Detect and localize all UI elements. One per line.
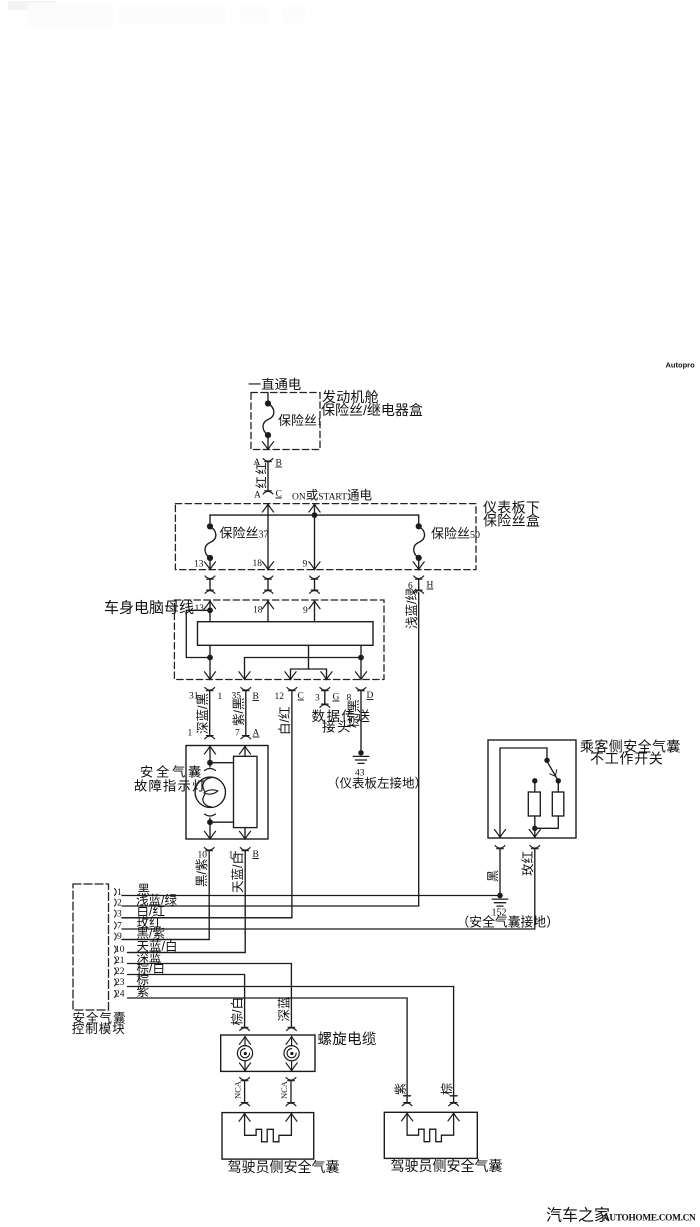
fuse F1 保险丝1	[263, 400, 274, 438]
wire fuse1 feed stub	[267, 393, 269, 404]
svg-text:保险丝50: 保险丝50	[431, 526, 480, 541]
arrow into airbag left pin2	[286, 1113, 297, 1121]
switch contact dot left	[532, 778, 537, 783]
arrow into lamp box pin7	[239, 746, 250, 754]
svg-text:保险丝1: 保险丝1	[278, 413, 322, 428]
svg-text:22: 22	[115, 967, 125, 977]
junction dot lamp top	[207, 760, 213, 766]
svg-text:深蓝/黑: 深蓝/黑	[196, 693, 210, 734]
pin 1 mark	[115, 889, 117, 896]
branch wire to 35	[245, 658, 362, 679]
arrow out at 18	[262, 562, 273, 570]
connector top half pin 31	[205, 688, 215, 691]
wire row10 天蓝/白 to lamp pin11	[128, 952, 246, 954]
svg-text:B: B	[253, 692, 259, 702]
wire lamp top leg	[209, 746, 211, 767]
svg-text:12: 12	[275, 692, 285, 702]
wire switch output to box edge	[534, 828, 536, 836]
junction dot ground 152	[497, 893, 502, 898]
arrow into airbag right pin2	[448, 1113, 459, 1121]
connector plug at spiral left input	[240, 1027, 250, 1030]
wire row21 深蓝 to spiral cable	[128, 964, 292, 1027]
wire 白/红 pin12 to row3	[122, 691, 292, 918]
svg-text:驾驶员侧安全气囊: 驾驶员侧安全气囊	[391, 1158, 503, 1174]
svg-text:A: A	[254, 491, 261, 501]
svg-text:NCA: NCA	[279, 1080, 289, 1099]
connector A-C bottom half	[263, 491, 273, 494]
junction dot 31	[207, 655, 213, 661]
svg-text:1: 1	[218, 692, 223, 702]
wire fuse50 to box edge	[418, 558, 420, 569]
ground G152	[492, 893, 508, 906]
svg-text:10: 10	[115, 945, 125, 955]
wire bus to fuse37	[209, 515, 211, 526]
svg-text:棕/黑: 棕/黑	[346, 700, 361, 728]
wire 黑/紫 lamp to row9	[122, 851, 209, 940]
arrow into spiral left	[244, 1037, 246, 1047]
wire bus to fuse50	[418, 515, 420, 526]
arrow out of switch box left	[494, 830, 505, 838]
svg-text:黑: 黑	[486, 870, 500, 882]
wire row1 黑 to ground152	[122, 895, 500, 897]
spiral cable box 螺旋电缆	[221, 1035, 315, 1071]
svg-text:H: H	[427, 581, 434, 591]
wire 天蓝/白 lamp to row10	[128, 851, 246, 953]
switch pivot dot	[544, 758, 549, 763]
connector pair 6/H	[414, 576, 424, 593]
wire fuse1 to box edge	[267, 435, 269, 448]
pin 10 mark	[115, 946, 117, 953]
wire row7 玫红 to switch	[122, 928, 535, 930]
wire bus bar down at 31	[209, 645, 211, 678]
passenger airbag cutoff switch box	[488, 740, 576, 838]
body computer bus box (dashed)	[174, 600, 384, 680]
connector top half lamp pin 11	[240, 848, 250, 851]
svg-text:24: 24	[115, 990, 125, 1000]
engine compartment fuse/relay box (dashed)	[251, 393, 320, 450]
svg-text:AUTOHOME.COM.CN: AUTOHOME.COM.CN	[603, 1214, 696, 1224]
svg-text:浅蓝/绿: 浅蓝/绿	[404, 588, 419, 629]
squib element right airbag	[407, 1113, 454, 1142]
resistor element rectangle	[234, 756, 258, 827]
wire 红 vertical (A/B to A/C)	[267, 462, 269, 491]
svg-text:汽车之家: 汽车之家	[546, 1207, 610, 1225]
svg-text:螺旋电缆: 螺旋电缆	[318, 1031, 377, 1048]
junction dot bus/ON feed	[312, 512, 318, 518]
wire 紫 end bar	[404, 1095, 411, 1097]
wire 13 into bus bar	[209, 601, 211, 622]
svg-text:白/红: 白/红	[277, 707, 292, 735]
arrow out of switch box right	[529, 830, 540, 838]
airbag control module box (dashed)	[73, 884, 109, 1010]
svg-text:7: 7	[117, 922, 122, 932]
wire switch feed (left leg)	[500, 748, 547, 837]
svg-text:紫/黑: 紫/黑	[232, 698, 246, 726]
connector top half pin 35	[241, 688, 251, 691]
connector pair at 18	[263, 576, 273, 593]
junction dot lamp bottom	[207, 819, 213, 825]
svg-text:红: 红	[254, 476, 269, 488]
connector bottom half pin 1	[205, 736, 215, 739]
resistor R-left	[528, 792, 540, 816]
wire 18 into bus bar	[267, 601, 269, 622]
switch contact dot right	[556, 778, 561, 783]
wire ON/START feed (9)	[314, 504, 316, 570]
pin 21 mark	[115, 957, 117, 964]
wire 9 into bus bar	[314, 601, 316, 622]
svg-text:18: 18	[253, 606, 263, 616]
svg-text:D: D	[367, 691, 374, 701]
svg-text:玫红: 玫红	[520, 851, 535, 876]
svg-text:保险丝/继电器盒: 保险丝/继电器盒	[321, 402, 423, 418]
pin 2 mark	[115, 899, 117, 906]
svg-text:23: 23	[115, 978, 125, 988]
fuse F50 保险丝50	[414, 523, 425, 561]
arrow into spiral right	[291, 1037, 293, 1047]
wire row24 紫 to right airbag	[128, 998, 408, 1102]
connector top half pin 8	[356, 688, 366, 691]
svg-text:13: 13	[195, 604, 205, 614]
lamp terminal arc top	[205, 769, 216, 771]
bypass wire loop left of bus bar	[186, 610, 210, 657]
svg-text:3: 3	[315, 694, 320, 704]
wire bus bar down at 8D	[360, 645, 362, 678]
wire resistor top leg	[244, 746, 246, 756]
svg-text:天蓝/白: 天蓝/白	[230, 852, 245, 893]
lamp terminal arc bottom	[205, 814, 216, 816]
svg-text:1: 1	[117, 888, 122, 898]
ground G43	[353, 750, 369, 763]
wire 浅蓝/绿 from 6H down to row2	[418, 593, 420, 907]
connector A-B top half	[263, 459, 273, 462]
svg-text:一直通电: 一直通电	[248, 377, 301, 392]
arrow into lamp box pin1	[204, 746, 215, 754]
svg-text:3: 3	[117, 910, 122, 920]
wire row23 棕 to right airbag	[128, 987, 454, 1103]
pin 22 mark	[115, 968, 117, 975]
svg-text:13: 13	[194, 560, 204, 570]
svg-text:车身电脑母线: 车身电脑母线	[104, 600, 194, 617]
connector top half switch right	[530, 846, 540, 849]
wire resistor bottoms join	[535, 816, 559, 828]
wire contact to resistor right	[557, 781, 559, 792]
arrow into body box at 18	[262, 601, 273, 609]
pin 24 mark	[115, 991, 117, 998]
arrow into body box at 9	[309, 601, 320, 609]
svg-text:棕: 棕	[439, 1083, 454, 1095]
wire 黑 switch to ground	[499, 849, 501, 896]
pin 23 mark	[115, 979, 117, 986]
feed wire of U branch	[308, 645, 310, 669]
connector top half pin 12	[287, 688, 297, 691]
connector plug at spiral right input	[287, 1027, 297, 1030]
connector pair NCA right	[286, 1078, 296, 1106]
svg-text:ON或START通电: ON或START通电	[292, 489, 373, 503]
pin 3 mark	[115, 910, 117, 917]
arrow into box at x268	[262, 504, 273, 512]
wire row3 白/红	[122, 917, 292, 919]
pin 7 mark	[115, 922, 117, 929]
svg-text:保险丝盒: 保险丝盒	[483, 513, 540, 529]
airbag warning lamp box 安全气囊故障指示灯	[186, 746, 268, 840]
svg-text:C: C	[276, 490, 282, 500]
wire 棕 end bar	[450, 1095, 457, 1097]
squib element left airbag	[245, 1114, 292, 1142]
svg-text:18: 18	[253, 559, 263, 569]
fuse F37 保险丝37	[205, 523, 216, 561]
connector plug right airbag pin2	[449, 1103, 459, 1106]
svg-text:Autopro: Autopro	[666, 361, 696, 370]
svg-text:驾驶员侧安全气囊: 驾驶员侧安全气囊	[228, 1159, 340, 1175]
wire row22 棕/白 to spiral cable	[128, 975, 245, 1027]
driver airbag box left	[222, 1113, 314, 1160]
bus bar rectangle	[198, 622, 374, 646]
connector pair at 9	[310, 576, 320, 593]
arrow into airbag left pin1	[239, 1113, 250, 1121]
svg-text:（安全气囊接地）: （安全气囊接地）	[457, 915, 559, 930]
arrow out of fuse box	[262, 442, 273, 450]
watermark ghost top-left	[8, 1, 305, 27]
svg-text:安全气囊: 安全气囊	[140, 764, 204, 780]
junction dot 8D	[358, 655, 364, 661]
bus wire inside fuse box	[210, 514, 419, 516]
connector pair NCA left	[240, 1078, 250, 1106]
connector pair pin 3/G	[320, 688, 330, 708]
svg-text:NCA: NCA	[233, 1080, 243, 1099]
wire 紫/黑 pin35 to lamp	[245, 691, 247, 736]
svg-text:深蓝: 深蓝	[277, 996, 291, 1021]
svg-text:7: 7	[235, 729, 240, 739]
svg-text:控制模块: 控制模块	[72, 1022, 126, 1036]
connector bottom half pin 7	[241, 736, 251, 739]
under-dash fuse box (dashed) 仪表板下保险丝盒	[175, 504, 476, 570]
resistor R-right	[552, 792, 564, 816]
svg-text:A: A	[253, 729, 260, 739]
arrow out at 9	[309, 562, 320, 570]
wire spiral right out	[291, 1061, 293, 1071]
svg-text:保险丝37: 保险丝37	[220, 526, 269, 541]
svg-text:紫: 紫	[393, 1083, 407, 1095]
connector top half lamp pin 10	[204, 848, 214, 851]
svg-text:C: C	[298, 692, 304, 702]
wire lamp bottom leg	[209, 818, 211, 838]
indicator lamp bulb	[195, 777, 225, 807]
connector pair at 13	[205, 576, 215, 593]
spiral turn left	[237, 1046, 252, 1061]
connector plug right airbag pin1	[402, 1103, 412, 1106]
arrow into box at x314.5	[309, 504, 320, 512]
svg-text:紫: 紫	[137, 985, 150, 999]
lamp filament	[203, 778, 212, 792]
wire spiral left out	[244, 1061, 246, 1071]
svg-text:（仪表板左接地）: （仪表板左接地）	[327, 776, 427, 791]
svg-text:红: 红	[254, 462, 269, 474]
branch wire to 12/3 (U shape)	[291, 669, 327, 679]
wire fuse37 to box edge	[209, 558, 211, 569]
svg-text:黑/紫: 黑/紫	[195, 859, 209, 887]
connector top half switch left	[495, 846, 505, 849]
driver airbag box right	[384, 1112, 477, 1158]
wire row2 浅蓝/绿 to 6H wire	[122, 905, 419, 907]
svg-text:B: B	[253, 850, 259, 860]
svg-text:9: 9	[303, 559, 308, 569]
svg-text:黑/紫: 黑/紫	[137, 927, 165, 941]
svg-text:棕/白: 棕/白	[230, 997, 245, 1025]
switch blade	[547, 761, 558, 780]
svg-text:1: 1	[188, 729, 193, 739]
pin 9 mark	[115, 933, 117, 940]
svg-text:9: 9	[303, 606, 308, 616]
spiral turn right	[284, 1046, 299, 1061]
wire battery feed through box (18)	[267, 504, 269, 570]
wire parallel link top	[210, 762, 234, 764]
wire resistor bottom leg	[244, 828, 246, 839]
arrow into body box at 13	[204, 601, 215, 609]
arrow into airbag right pin1	[402, 1113, 413, 1121]
wire 棕/黑 pin8 to ground	[360, 691, 362, 753]
wire row9 黑/紫 to lamp pin10	[122, 939, 209, 941]
svg-text:B: B	[276, 459, 282, 469]
svg-text:9: 9	[117, 932, 122, 942]
wire 玫红 switch to row7	[534, 849, 536, 930]
svg-text:G: G	[333, 693, 340, 703]
wire parallel link bottom	[210, 821, 234, 823]
wire contact to resistor left	[534, 781, 536, 792]
junction dot switch output	[532, 826, 537, 831]
svg-text:21: 21	[115, 956, 125, 966]
junction dot 13	[207, 607, 213, 613]
svg-text:不工作开关: 不工作开关	[590, 751, 664, 767]
svg-text:2: 2	[117, 899, 122, 909]
wire 深蓝/黑 pin31 to lamp	[209, 691, 211, 736]
